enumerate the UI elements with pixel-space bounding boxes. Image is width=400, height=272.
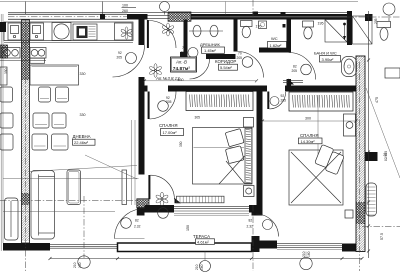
wc toilet (241, 21, 253, 38)
svg-text:205: 205 (281, 99, 287, 103)
window circle bottom left (73, 256, 90, 268)
wall finish lines living (132, 120, 136, 205)
door bedroom2 leaf (267, 92, 269, 110)
door kitchen arc (113, 45, 145, 77)
svg-text:150: 150 (186, 225, 190, 231)
wall jamb terrace left (137, 208, 145, 216)
window bedroom1 bottom (174, 206, 249, 215)
leader lines living (28, 155, 137, 179)
door wc circle (237, 52, 253, 68)
neighbor shower top-right (353, 16, 373, 44)
axis line living horizontal (0, 200, 138, 202)
svg-text:210: 210 (195, 264, 199, 270)
svg-text:КОРИДОР: КОРИДОР (215, 59, 236, 64)
door circle terrace-living (121, 218, 141, 229)
wall bottom-left exterior (3, 243, 50, 251)
flower corridor (149, 64, 162, 78)
bed bedroom2 (289, 144, 344, 205)
dim line 300 bedroom2 (261, 120, 358, 123)
radiator bedroom1 south (177, 196, 225, 203)
door corridor-bedroom1 leaf (148, 92, 150, 120)
wall right exterior (356, 56, 365, 252)
svg-text:205: 205 (181, 51, 187, 55)
wall bedroom1 bottom right pier (249, 205, 263, 213)
door circle bedroom1 (158, 96, 172, 111)
svg-text:22.46м²: 22.46м² (74, 140, 89, 145)
svg-text:260: 260 (122, 9, 128, 13)
wire top boundary line (0, 1, 358, 3)
dim line bottom (49, 257, 364, 260)
svg-text:3.90м²: 3.90м² (322, 57, 335, 62)
svg-text:ТЕРАСА: ТЕРАСА (193, 234, 210, 239)
svg-text:82: 82 (249, 219, 253, 223)
axis stub mid bottom circle (204, 252, 206, 261)
axis stub x225 (225, 2, 227, 15)
svg-text:170: 170 (256, 25, 262, 29)
leader line right (366, 88, 400, 178)
door entry size label (122, 4, 137, 13)
chair neighbor 1 (0, 87, 13, 102)
svg-text:210: 210 (73, 262, 77, 268)
svg-text:205: 205 (237, 56, 243, 60)
night table bed2 (344, 114, 356, 136)
door corridor-bedroom1 arc (150, 92, 176, 120)
wall stub right (365, 152, 378, 161)
table neighbor (0, 67, 7, 85)
svg-text:100: 100 (122, 4, 128, 8)
svg-text:74.87м²: 74.87м² (173, 66, 191, 72)
chair 6 (52, 134, 69, 150)
tv bench (122, 170, 127, 205)
svg-text:СПАЛНЯ: СПАЛНЯ (300, 133, 319, 138)
wall bedroom2 bottom right corner (342, 244, 362, 252)
axis line x84 (83, 196, 85, 258)
bath toilet (303, 21, 314, 39)
svg-text:475: 475 (375, 97, 379, 103)
bed bedroom1 (193, 128, 253, 185)
window living bottom (50, 245, 118, 249)
neighbor cabinet right (385, 68, 400, 78)
svg-text:14.30м²: 14.30м² (301, 139, 316, 144)
dim text 170 (256, 25, 262, 29)
wardrobe bedroom2 (289, 92, 353, 111)
wire party wall axis above (24, 2, 26, 15)
door bedroom2 arc (269, 92, 285, 109)
room label living (73, 134, 96, 145)
chair 2 (56, 87, 69, 102)
svg-text:82: 82 (135, 219, 139, 223)
wire top sill line (8, 12, 347, 14)
wall party top-right stub (347, 11, 352, 45)
plant flower on counter (121, 27, 133, 39)
axis line x253 top (252, 0, 254, 19)
window circle bottom right (300, 251, 312, 269)
wardrobe bedroom1 (186, 92, 253, 111)
threshold arrow terrace (175, 198, 182, 203)
svg-text:57.5: 57.5 (380, 233, 384, 240)
svg-text:2.32: 2.32 (134, 225, 141, 229)
dim text 475 (375, 97, 379, 103)
dim text 82-205 right (384, 151, 388, 161)
svg-text:92: 92 (118, 51, 122, 55)
radiator right (366, 183, 377, 216)
wall pier top-right (365, 14, 373, 21)
axis line x359 (359, 62, 361, 271)
room label wc (268, 36, 287, 48)
door closet arc (190, 59, 210, 79)
dim text 330 lower (80, 113, 86, 117)
window circle bottom mid (195, 261, 211, 272)
svg-text:205: 205 (292, 69, 298, 73)
kitchen cabinet (30, 23, 44, 40)
svg-text:Ап.-В: Ап.-В (175, 60, 187, 65)
svg-text:92: 92 (281, 94, 285, 98)
svg-text:300: 300 (305, 116, 311, 120)
wall bath left (287, 20, 292, 86)
door circle terrace-bedroom2 (247, 219, 273, 230)
wall closet jamb (180, 52, 188, 59)
svg-text:350: 350 (4, 68, 8, 74)
kitchen hob (30, 48, 46, 59)
room label bath (314, 51, 341, 63)
kitchen fridge (0, 22, 6, 32)
svg-text:Ап.№3,8,13: Ап.№3,8,13 (155, 76, 180, 81)
kitchen lower unit edge (30, 58, 45, 63)
svg-text:СПАЛНЯ: СПАЛНЯ (159, 123, 178, 128)
svg-text:160: 160 (307, 251, 311, 257)
door wc arc (238, 52, 264, 78)
axis line party wall (24, 20, 26, 271)
door terrace-bedroom2 leaf (256, 214, 279, 237)
svg-text:82: 82 (293, 65, 297, 69)
chair neighbor 3 (0, 134, 13, 150)
bath tub (342, 57, 357, 77)
night table bedroom2 south (345, 210, 353, 218)
axis line right horizontal (362, 226, 400, 228)
sofa living (31, 171, 55, 240)
wall party left vertical (22, 20, 30, 243)
door bath arc (289, 53, 316, 80)
dim text 350 bedroom1 (179, 141, 183, 147)
svg-text:ДНЕВНА: ДНЕВНА (73, 134, 91, 139)
chair 3 (33, 113, 49, 128)
dim text 305 bedroom1 (195, 116, 201, 120)
room label closet (200, 42, 225, 54)
dim text 460 (178, 78, 184, 82)
chair 1 (39, 87, 51, 102)
dim text 57.5 (380, 233, 384, 240)
svg-text:195: 195 (318, 21, 324, 25)
svg-text:350: 350 (179, 141, 183, 147)
kitchen lower counter edge (0, 60, 46, 62)
door entry arc (149, 21, 176, 49)
svg-text:160: 160 (78, 262, 82, 268)
svg-text:460: 460 (178, 78, 184, 82)
kitchen drainboard (73, 24, 97, 40)
circle symbol top-right (374, 3, 395, 24)
wall terrace parapet (118, 243, 252, 252)
threshold line terrace door (115, 238, 145, 240)
wall bedroom1 bottom left pier (145, 205, 175, 213)
svg-text:305: 305 (195, 116, 201, 120)
svg-text:205: 205 (374, 18, 378, 24)
dim text 72 right (383, 153, 387, 157)
bath threshold (283, 79, 303, 85)
chair neighbor 2 (0, 113, 13, 128)
svg-text:1.62м²: 1.62м² (270, 43, 283, 48)
closet rails (189, 25, 223, 37)
kitchen sink round (52, 23, 71, 41)
dining table (30, 65, 79, 85)
room label bedroom1 (159, 123, 184, 136)
dim text 150 (186, 225, 190, 231)
wall W1 corridor-kitchen (139, 20, 145, 46)
door entry circle (160, 2, 170, 15)
dim text 330 upper (80, 72, 86, 76)
kitchen cabinet neighbor (8, 23, 21, 40)
door bath circle (292, 64, 312, 75)
room label bedroom2 (299, 133, 323, 144)
wall terrace right jamb top (252, 205, 260, 216)
svg-text:5.54м²: 5.54м² (220, 65, 233, 70)
rug line lower (3, 211, 115, 213)
svg-text:1.45м²: 1.45м² (204, 48, 217, 53)
wall pier crosshatch W2 bottom (137, 199, 149, 208)
window bedroom2 bottom (277, 244, 342, 250)
kitchen unit end (115, 23, 133, 40)
chair 5 (32, 134, 48, 150)
sofa neighbor (5, 198, 19, 240)
kitchen hob neighbor (2, 48, 20, 59)
night table bed1 (244, 186, 255, 197)
wall W2 living-bedroom1 (139, 92, 145, 175)
room label terrace (193, 234, 215, 245)
svg-text:330: 330 (80, 72, 86, 76)
svg-text:2.32: 2.32 (247, 225, 254, 229)
door living-terrace arc (115, 209, 145, 239)
wall wc bottom (259, 48, 287, 53)
chair 4 (52, 113, 66, 128)
wire left boundary (1, 14, 3, 251)
wall bedroom1 right (257, 86, 263, 216)
valve mark bath wall (283, 24, 286, 28)
door circle bedroom2 (270, 94, 286, 106)
door closet circle (181, 46, 199, 58)
svg-text:70: 70 (182, 46, 186, 50)
svg-text:205: 205 (117, 56, 123, 60)
wall bedroom top horizontal (139, 86, 366, 92)
dim extension x318 (317, 95, 319, 155)
apartment number text (155, 76, 180, 81)
wall closet bottom (206, 54, 236, 59)
svg-text:205: 205 (166, 100, 172, 104)
kitchen counter (4, 22, 133, 43)
axis line top wall right (347, 16, 400, 18)
window circle bedroom1 south (158, 208, 169, 219)
door entry leaf (147, 20, 149, 48)
neighbor toilet top-right (377, 22, 391, 41)
door bedroom1 arc (150, 175, 174, 199)
bath shower corner (325, 20, 347, 43)
svg-text:ДРЕШНИК: ДРЕШНИК (200, 42, 220, 47)
wc sink (259, 21, 267, 29)
svg-text:160: 160 (200, 264, 204, 270)
dim text 350 left (4, 68, 8, 74)
wall W2 living-bedroom1 upper (139, 77, 145, 92)
axis stub right bottom circle (305, 252, 307, 258)
wall wc left (234, 20, 238, 52)
flower terrace door (155, 192, 168, 206)
apartment title box (171, 57, 197, 72)
svg-text:72: 72 (383, 153, 387, 157)
svg-text:210: 210 (302, 251, 306, 257)
dim text 195 (318, 21, 324, 25)
svg-text:330: 330 (80, 113, 86, 117)
night table bed1 top (244, 118, 254, 128)
svg-text:17.00м²: 17.00м² (163, 130, 178, 135)
door kitchen circle (117, 51, 137, 64)
rug line upper (3, 177, 139, 179)
svg-text:БАНЯ И WC: БАНЯ И WC (314, 51, 337, 56)
wall block top-left corner (0, 45, 8, 58)
axis stub x102 (102, 2, 104, 15)
coffee table (67, 170, 81, 205)
wall top exterior (8, 12, 347, 20)
svg-text:4.61м²: 4.61м² (197, 240, 210, 245)
wall closet left (184, 20, 188, 60)
wall terrace right jamb bottom (252, 236, 260, 252)
dim text 300 (305, 116, 311, 120)
axis line x253 bottom (252, 205, 254, 271)
dim line right (367, 11, 370, 258)
flower entry (162, 23, 175, 36)
room label corridor (215, 59, 238, 70)
wall bedroom2 bottom left (260, 241, 278, 249)
svg-text:WC: WC (271, 36, 278, 41)
wall pier crosshatch at entry (168, 12, 191, 21)
dim line 460 bedroom1 (143, 79, 258, 82)
door bedroom1 leaf (148, 175, 150, 199)
